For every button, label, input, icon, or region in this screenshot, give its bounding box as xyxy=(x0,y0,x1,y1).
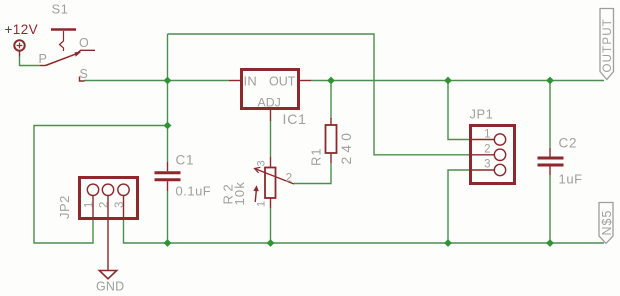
junction dot JP1 pin3 rail xyxy=(444,239,452,247)
svg-text:C1: C1 xyxy=(176,153,195,168)
svg-text:1: 1 xyxy=(84,202,96,208)
wire vertical x167 upper xyxy=(167,34,169,162)
op-amp/regulator IC1 box xyxy=(242,70,299,109)
ground wire from JP2 pin2 xyxy=(107,219,109,270)
JP1 pin 3 xyxy=(469,169,495,171)
R1 pin stubs xyxy=(330,118,332,163)
wire left branch xyxy=(34,126,168,244)
IC1 pin IN stub xyxy=(229,80,241,82)
wire ADJ to R2 xyxy=(270,121,272,157)
wire R1 bottom to R2 wiper xyxy=(294,163,331,184)
junction dot C2 bottom xyxy=(546,239,554,247)
R2 pin stubs xyxy=(270,157,272,208)
switch pin P stub xyxy=(40,65,46,67)
svg-text:1uF: 1uF xyxy=(559,172,583,187)
svg-text:JP2: JP2 xyxy=(57,195,72,219)
svg-text:OUT: OUT xyxy=(269,75,296,89)
switch S1 lever arrowhead xyxy=(75,52,82,57)
connector JP1 box xyxy=(471,126,515,184)
JP1 pin 1 xyxy=(469,139,495,141)
junction dot x167 y125 xyxy=(164,122,172,130)
connector JP2 box xyxy=(80,178,138,219)
svg-text:IC1: IC1 xyxy=(283,111,307,127)
IC1 pin OUT stub xyxy=(299,80,311,82)
svg-text:C2: C2 xyxy=(559,136,578,151)
svg-text:2: 2 xyxy=(99,202,111,208)
wire JP2 pin3 to rail xyxy=(124,219,168,243)
wire supply to switch pole xyxy=(20,57,41,66)
wire main rail right segment xyxy=(311,80,604,82)
supply +12V symbol xyxy=(14,40,24,56)
wire R2 bottom to rail xyxy=(270,208,272,243)
wire bottom rail xyxy=(168,242,605,244)
junction dot JP1 pin1 rail xyxy=(444,77,452,85)
capacitor C1 xyxy=(155,173,181,180)
C1 pin stubs xyxy=(167,162,169,191)
net flag OUTPUT xyxy=(600,9,614,80)
wire R1 top xyxy=(330,81,332,120)
junction dot R1 top xyxy=(327,77,335,85)
JP1 pin 2 xyxy=(469,154,495,156)
svg-text:+12V: +12V xyxy=(5,22,39,37)
JP2 pin 1 xyxy=(87,184,98,195)
svg-text:S1: S1 xyxy=(52,2,69,17)
wire JP1 pin1 xyxy=(448,81,470,140)
R2 wiper diagonal xyxy=(255,169,295,185)
svg-text:JP1: JP1 xyxy=(470,107,494,122)
JP2 pin 3 xyxy=(118,184,129,195)
svg-text:2: 2 xyxy=(484,144,490,156)
svg-text:R1: R1 xyxy=(309,147,324,166)
potentiometer R2 body xyxy=(265,168,276,199)
svg-text:1: 1 xyxy=(484,128,490,140)
switch S1 xyxy=(46,30,96,82)
R2 up arrow xyxy=(255,191,256,203)
IC1 pin ADJ stub xyxy=(270,108,272,121)
svg-text:N$5: N$5 xyxy=(600,210,614,236)
junction dot R2 bottom xyxy=(267,239,275,247)
wire C2 bottom xyxy=(549,175,551,243)
svg-text:IN: IN xyxy=(244,74,258,89)
R2 wiper arrowhead xyxy=(255,167,261,173)
resistor R1 xyxy=(326,125,337,153)
svg-text:GND: GND xyxy=(96,280,124,294)
junction dot C2 top xyxy=(546,77,554,85)
wire top loop xyxy=(168,34,471,155)
svg-text:10k: 10k xyxy=(232,181,247,206)
C2 pin stubs xyxy=(549,148,551,175)
svg-text:2: 2 xyxy=(286,171,293,185)
svg-text:240: 240 xyxy=(339,129,354,165)
svg-text:S: S xyxy=(80,67,88,81)
svg-text:1: 1 xyxy=(256,201,268,207)
JP2 pin 2 xyxy=(102,184,113,195)
svg-text:ADJ: ADJ xyxy=(258,96,281,110)
wire C2 top xyxy=(549,81,551,149)
svg-text:3: 3 xyxy=(114,202,126,208)
wire JP1 pin3 to rail xyxy=(448,170,470,243)
svg-text:P: P xyxy=(39,52,47,66)
svg-text:OUTPUT: OUTPUT xyxy=(602,18,614,72)
wire vertical x167 lower xyxy=(167,191,169,243)
net flag N$5 xyxy=(599,203,613,244)
wire main rail left segment xyxy=(84,80,229,82)
svg-text:3: 3 xyxy=(484,159,490,171)
junction dot x167 bottom xyxy=(164,239,172,247)
svg-text:0.1uF: 0.1uF xyxy=(176,184,212,199)
capacitor C2 xyxy=(538,158,564,165)
svg-text:3: 3 xyxy=(256,160,268,166)
junction dot rail x167 xyxy=(164,77,172,85)
ground symbol xyxy=(99,271,116,279)
svg-text:O: O xyxy=(79,36,89,50)
